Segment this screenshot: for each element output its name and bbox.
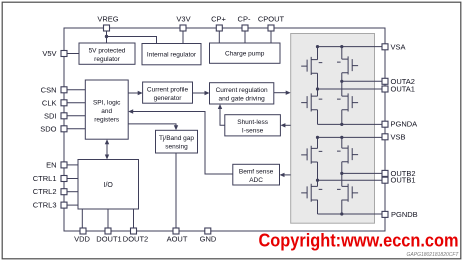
bridge B left half-bridge vertical — [317, 137, 319, 214]
svg-text:PGNDA: PGNDA — [391, 120, 418, 129]
bridge A right half-bridge vertical — [341, 47, 343, 125]
junction OUTA2 node — [340, 80, 343, 83]
svg-text:CP+: CP+ — [211, 14, 226, 23]
pin V5V — [61, 51, 67, 57]
pin CPOUT — [268, 25, 274, 31]
svg-text:I-sense: I-sense — [242, 127, 264, 134]
svg-text:I/O: I/O — [104, 182, 114, 189]
junction bridge B rail right — [340, 136, 343, 139]
svg-text:Current regulation: Current regulation — [216, 87, 268, 94]
junction OUTB2 node — [340, 172, 343, 175]
pin CLK — [61, 100, 67, 106]
block: SPI logic and registers U1 — [85, 80, 128, 139]
wire profile generator to current regulation — [193, 92, 206, 94]
pin DOUT1 — [105, 228, 111, 234]
svg-text:OUTB1: OUTB1 — [391, 176, 416, 185]
svg-text:and gate driving: and gate driving — [218, 95, 265, 102]
svg-text:VREG: VREG — [97, 14, 118, 23]
svg-text:Shunt-less: Shunt-less — [237, 119, 268, 126]
wire SDI to SPI — [67, 115, 85, 117]
pin PGNDA — [382, 121, 388, 127]
wire OUTB1 — [318, 179, 383, 181]
svg-text:registers: registers — [94, 117, 120, 124]
wire current regulation to power bridges — [274, 92, 287, 94]
svg-text:and: and — [101, 108, 112, 115]
svg-text:V5V: V5V — [42, 49, 56, 58]
svg-text:DOUT1: DOUT1 — [96, 235, 121, 244]
svg-text:VSA: VSA — [391, 42, 406, 51]
pin CP- — [242, 25, 248, 31]
svg-text:CLK: CLK — [42, 98, 57, 107]
svg-text:OUTA1: OUTA1 — [391, 85, 415, 94]
transistor Q5 high-side B left — [301, 146, 322, 164]
pin CTRL2 — [61, 189, 67, 195]
wire bridges to shunt-less i-sense — [285, 124, 291, 126]
wire I/O to DOUT2 — [133, 209, 135, 228]
svg-text:generator: generator — [154, 95, 183, 102]
svg-text:ADC: ADC — [249, 177, 263, 184]
wire CLK to SPI — [67, 102, 85, 104]
pin CSN — [61, 87, 67, 93]
arrowhead SPI to profile generator — [138, 91, 143, 95]
transistor Q6 high-side B right — [337, 145, 358, 163]
svg-text:VSB: VSB — [391, 132, 406, 141]
svg-text:CP-: CP- — [238, 14, 251, 23]
svg-text:Current profile: Current profile — [147, 86, 189, 93]
pin VSA — [382, 44, 388, 50]
pin GND — [205, 228, 211, 234]
svg-text:Copyright:www.eccn.com: Copyright:www.eccn.com — [259, 230, 459, 251]
svg-text:PGNDB: PGNDB — [391, 210, 418, 219]
block: current profile generator — [143, 82, 193, 103]
power stage gray panel — [291, 34, 375, 224]
pin SDI — [61, 113, 67, 119]
wire CSN to SPI — [67, 89, 85, 91]
transistor Q3 low-side A left — [301, 93, 322, 111]
svg-text:CTRL2: CTRL2 — [33, 187, 57, 196]
bridge A left half-bridge vertical — [317, 47, 319, 125]
pin VSB — [382, 134, 388, 140]
pin CTRL1 — [61, 176, 67, 182]
svg-text:SDI: SDI — [44, 111, 57, 120]
wire OUTA1 — [318, 88, 383, 90]
pin OUTB1 — [382, 177, 388, 183]
svg-text:5V protected: 5V protected — [89, 47, 126, 54]
transistor Q4 low-side A right — [337, 93, 358, 111]
svg-text:GND: GND — [200, 235, 217, 244]
wire Tj sensing to AOUT — [175, 153, 177, 228]
svg-text:DOUT2: DOUT2 — [123, 235, 148, 244]
block: shunt-less I-sense — [225, 115, 281, 136]
wire CTRL2 to I/O — [67, 191, 78, 193]
wire shunt-less i-sense to current regulation — [220, 108, 225, 125]
arrowhead bemf feedback into SPI — [128, 109, 133, 113]
block: bemf sense ADC — [233, 164, 280, 185]
block: current regulation and gate driving — [210, 83, 274, 104]
svg-text:Bemf sense: Bemf sense — [239, 168, 274, 175]
svg-text:CTRL3: CTRL3 — [33, 201, 57, 210]
svg-text:EN: EN — [46, 160, 56, 169]
wire SDO to SPI — [67, 128, 85, 130]
transistor Q1 high-side A left — [301, 57, 322, 75]
wire I/O to VDD — [81, 209, 83, 228]
block: charge pump — [210, 43, 281, 63]
arrowhead SPI-I/O link down — [105, 155, 109, 160]
wire EN to I/O — [67, 164, 78, 166]
junction bridge A ground rail — [340, 123, 343, 126]
bridge B top rail from VSB — [318, 136, 383, 138]
svg-text:Charge pump: Charge pump — [225, 51, 265, 58]
wire bridges to bemf sense adc — [284, 174, 291, 176]
pin OUTB2 — [382, 170, 388, 176]
pin OUTA2 — [382, 78, 388, 84]
pin DOUT2 — [131, 228, 137, 234]
svg-text:AOUT: AOUT — [167, 235, 188, 244]
junction OUTA1 node — [316, 87, 319, 90]
junction bridge B ground rail — [340, 212, 343, 215]
wire bemf adc feedback to SPI — [132, 112, 232, 175]
arrowhead into shunt-less i-sense — [280, 123, 285, 127]
block: 5V protected regulator — [79, 43, 135, 64]
wire CTRL1 to I/O — [67, 178, 78, 180]
pin VREG — [104, 25, 110, 31]
svg-text:SPI, logic: SPI, logic — [93, 100, 121, 107]
arrowhead into bemf sense adc — [280, 173, 285, 177]
junction bridge A rail left — [316, 45, 319, 48]
svg-text:V3V: V3V — [176, 14, 190, 23]
chip boundary — [64, 28, 385, 231]
wire SPI to current profile generator — [128, 92, 138, 94]
bridge A top rail from VSA — [318, 46, 383, 48]
pin PGNDB — [382, 211, 388, 217]
wire CPOUT to charge pump — [270, 31, 272, 43]
svg-text:SDO: SDO — [40, 124, 56, 133]
svg-text:Tj/Band gap: Tj/Band gap — [159, 135, 194, 142]
wire CP+ to charge pump — [218, 31, 220, 43]
wire I/O to DOUT1 — [107, 209, 109, 228]
wire SPI to Tj band gap sensing — [128, 124, 176, 126]
arrowhead profile generator to current regulation — [205, 91, 210, 95]
arrowhead SPI-I/O link up — [105, 139, 109, 144]
svg-text:CSN: CSN — [41, 85, 57, 94]
transistor Q2 high-side A right — [337, 56, 358, 74]
svg-text:GAPG1802181820CFT: GAPG1802181820CFT — [407, 252, 460, 258]
bridge A bottom rail to PGNDA — [318, 123, 383, 125]
block: I/O — [78, 160, 139, 210]
block: internal regulator — [142, 44, 201, 65]
bridge B bottom rail to PGNDB — [318, 213, 383, 215]
block: Tj/band gap sensing — [156, 130, 198, 153]
junction VREG branch — [105, 35, 108, 38]
pin CTRL3 — [61, 202, 67, 208]
arrowhead current regulation to bridges — [286, 91, 291, 95]
transistor Q8 low-side B right — [337, 184, 358, 202]
pin SDO — [61, 126, 67, 132]
pin VDD — [80, 228, 86, 234]
svg-text:CTRL1: CTRL1 — [33, 174, 57, 183]
junction OUTB1 node — [316, 179, 319, 182]
arrowhead shunt-less to current regulation — [218, 104, 222, 109]
wire SPI I/O bidirectional link — [106, 143, 108, 155]
wire VREG down to 5V protected regulator — [106, 31, 108, 43]
wire V3V to internal regulator — [182, 31, 184, 44]
transistor Q7 low-side B left — [301, 184, 322, 202]
wire OUTA2 — [342, 80, 382, 82]
svg-text:CPOUT: CPOUT — [258, 14, 285, 23]
pin CP+ — [216, 25, 222, 31]
junction bridge B rail left — [316, 136, 319, 139]
svg-text:sensing: sensing — [165, 143, 188, 150]
wire OUTB2 — [342, 172, 382, 174]
wire CP- to charge pump — [244, 31, 246, 43]
junction bridge A rail right — [340, 45, 343, 48]
svg-text:regulator: regulator — [94, 56, 120, 63]
pin EN — [61, 162, 67, 168]
pin V3V — [180, 25, 186, 31]
svg-text:VDD: VDD — [74, 235, 90, 244]
wire V5V to 5V regulator — [67, 53, 79, 55]
svg-text:Internal regulator: Internal regulator — [147, 52, 197, 59]
arrowhead SPI to Tj sensing — [174, 125, 178, 130]
pin AOUT — [173, 228, 179, 234]
wire CTRL3 to I/O — [67, 204, 78, 206]
pin OUTA1 — [382, 86, 388, 92]
bridge B right half-bridge vertical — [341, 137, 343, 214]
wire VREG branch to internal regulator — [107, 37, 157, 44]
